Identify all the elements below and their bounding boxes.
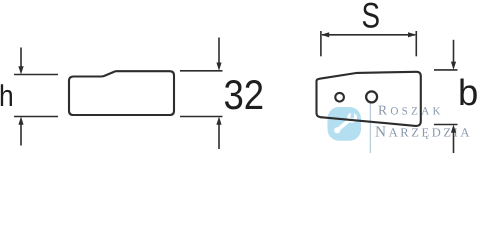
32 dimension top extension line [180, 70, 223, 72]
b dimension top arrow [451, 40, 456, 70]
32 dimension bottom extension line [180, 116, 223, 118]
watermark wrench icon [330, 108, 360, 136]
b dimension bottom extension line [434, 124, 458, 126]
h dimension top extension line [14, 74, 58, 76]
S left extension line [320, 31, 322, 56]
watermark badge [328, 107, 362, 141]
svg-text:b: b [458, 72, 478, 113]
svg-text:S: S [362, 0, 381, 36]
large hole [366, 91, 377, 102]
32 dimension top arrow [216, 38, 221, 71]
top view outline (right part) [317, 72, 421, 126]
svg-text:h: h [0, 80, 14, 113]
S dimension left arrow [321, 32, 329, 37]
h dimension bottom extension line [14, 116, 58, 118]
S dimension line [322, 34, 415, 36]
svg-text:ROSZAK: ROSZAK [378, 102, 444, 117]
side view outline (left part) [69, 71, 174, 115]
h dimension bottom arrow [18, 117, 23, 146]
b dimension top extension line [434, 69, 458, 71]
svg-text:NARZĘDZIA: NARZĘDZIA [375, 123, 472, 140]
b dimension bottom arrow [451, 125, 456, 154]
svg-text:32: 32 [224, 71, 265, 118]
h dimension top arrow [18, 48, 23, 75]
S right extension line [415, 31, 417, 56]
S dimension right arrow [408, 32, 416, 37]
watermark separator [369, 102, 371, 153]
small hole [335, 93, 344, 102]
32 dimension bottom arrow [216, 117, 221, 150]
